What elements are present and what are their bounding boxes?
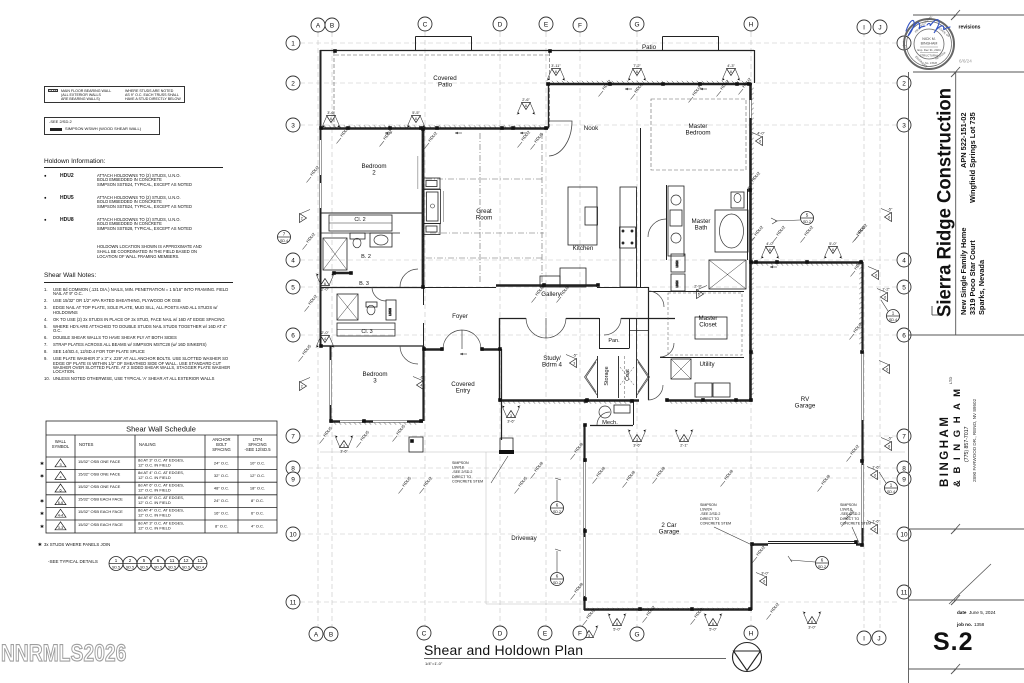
svg-text:(775) 857-7017: (775) 857-7017 (964, 426, 970, 462)
schedule row 6-6 (55, 497, 66, 505)
shear wall notes heading (44, 272, 96, 280)
study west wall (499, 318, 501, 400)
B3 door (372, 287, 386, 301)
watermark NNRMLS2026 (1, 641, 127, 669)
grid bubble bottom D (493, 626, 507, 640)
svg-text:Wingfield Springs Lot 735: Wingfield Springs Lot 735 (968, 112, 977, 203)
flag rv corner (872, 271, 879, 280)
mech door (597, 412, 610, 425)
patio right edge (754, 50, 756, 83)
svg-text:date: date (957, 610, 967, 615)
schedule row 3-3 (55, 522, 66, 530)
flag rv1 (766, 247, 775, 254)
grid bubble bottom G (630, 627, 644, 641)
flag 3-11 (552, 69, 561, 76)
svg-text:job no.: job no. (956, 622, 972, 627)
patio dashed post line left (333, 52, 335, 127)
coat bifold chevrons (637, 359, 650, 395)
flag rv east6 (871, 525, 878, 534)
typ detail 5/SD.5 (137, 557, 151, 571)
kitchen east wall inner (636, 190, 638, 287)
flag 5-5 (412, 116, 421, 123)
flag cl3 (321, 336, 330, 343)
grid bubble left 8 (286, 461, 300, 475)
grid bubble top B (325, 18, 339, 32)
plan title (424, 642, 726, 666)
flag left wall 2 (300, 382, 307, 391)
svg-text:& B I N G H A M: & B I N G H A M (952, 387, 963, 487)
detail 6/SD.2 a (551, 502, 564, 515)
coat dashed center (624, 356, 626, 398)
gallery north shear wall (496, 284, 597, 286)
svg-text:LTD: LTD (948, 377, 953, 384)
east house wall (master/utility) (749, 84, 752, 400)
Cl3 closet (337, 323, 395, 336)
kitchen island (568, 187, 597, 245)
holdown hdu5 (44, 196, 47, 201)
bedroom3/entry west wall (422, 346, 424, 421)
holdown hdu8 (44, 218, 47, 223)
professional stamp (904, 14, 954, 69)
kitchen lower cabinet (560, 268, 586, 287)
coat shelf X (620, 367, 634, 385)
signature (906, 20, 950, 36)
rv garage top shear wall (752, 261, 863, 264)
grid bubble right 4 (897, 253, 911, 267)
doors (372, 121, 674, 425)
coat east wall (648, 287, 650, 400)
svg-text:1358: 1358 (974, 622, 985, 627)
shear wall schedule table (0, 0, 300, 683)
3x studs note (38, 542, 110, 547)
svg-text:3319 Poco Star Court: 3319 Poco Star Court (968, 240, 977, 315)
covered entry east wall (501, 349, 503, 440)
legend box: simpson wswh (44, 117, 160, 135)
detail 6/SD.2 c (816, 557, 829, 570)
utility bottom shear wall (666, 399, 752, 402)
grid bubble left 9 (286, 472, 300, 486)
flag rv east4 (885, 442, 892, 451)
typ detail 6/SD.5 (151, 557, 165, 571)
grid bubble left 11 (286, 595, 300, 609)
svg-text:No. 13528: No. 13528 (925, 61, 938, 65)
detail 1/SD.4 right2 (885, 482, 898, 495)
study top wall (499, 318, 526, 320)
master closet top wall (648, 291, 744, 293)
storage/coat divider (618, 356, 620, 398)
B3 shower (337, 294, 358, 320)
holdown note (97, 245, 202, 259)
grid bubble right 6 (897, 328, 911, 342)
rv garage east wall (861, 262, 863, 545)
flag rv2 (829, 247, 838, 254)
great room media wall (424, 178, 441, 189)
covered entry columns (409, 437, 514, 454)
fixtures (323, 156, 748, 418)
interior wall B2 floor (320, 232, 400, 234)
grid bubble top D (493, 17, 507, 31)
flag 3-6 top (327, 116, 336, 123)
linen closets (671, 254, 685, 272)
grid bubble bottom F (573, 626, 587, 640)
garage entry door (648, 385, 663, 400)
mech room walls (590, 425, 633, 427)
Cl2 closet doors (329, 215, 392, 231)
2car garage door (768, 541, 856, 543)
svg-text:2890 FARWOOD DR., RENO, NV 895: 2890 FARWOOD DR., RENO, NV 89502 (972, 398, 977, 482)
foyer north opening walls (423, 287, 470, 289)
B3 linen (386, 300, 396, 320)
master toilet (731, 192, 744, 208)
patio bump right (662, 37, 664, 51)
flag bed3 bottom (340, 441, 349, 448)
svg-text:BINGHAM: BINGHAM (939, 415, 951, 487)
grid bubble bottom B (324, 627, 338, 641)
grid bubble bottom C (417, 626, 431, 640)
window segments (320, 100, 864, 596)
grid bubbles (286, 17, 911, 645)
flag nook corner (522, 103, 531, 110)
detail 1/SD.4 right (887, 310, 900, 323)
interior wall Cl2 top (320, 212, 423, 214)
grid bubble bottom E (538, 626, 552, 640)
mech equip (599, 406, 611, 418)
grid bubble right 11 (897, 585, 911, 599)
study east door (604, 318, 621, 335)
master bath door (648, 219, 666, 237)
svg-text:6/6/24: 6/6/24 (959, 59, 972, 64)
svg-text:June 5, 2024: June 5, 2024 (969, 610, 996, 615)
grid bubble right 5 (897, 280, 911, 294)
interior wall B2/B3 (320, 287, 423, 289)
detail circles (278, 212, 900, 586)
flag garage door r (760, 577, 767, 586)
grid bubble left 3 (286, 118, 300, 132)
master bath west wall (666, 185, 668, 260)
grid lines (300, 32, 898, 628)
grid bubble left 6 (286, 328, 300, 342)
grid bubble top A (311, 18, 325, 32)
garage west wall (583, 425, 585, 610)
storage bifold chevrons (585, 359, 598, 395)
svg-text:revisions: revisions (959, 25, 981, 31)
flag rv east1 (885, 213, 892, 222)
flag b3 (321, 279, 330, 286)
storage/mech bottom shear wall (585, 399, 639, 402)
flag 4-3 (727, 69, 736, 76)
grid bubble right 7 (897, 429, 911, 443)
garage south wall (584, 608, 752, 611)
flag entry right (570, 359, 577, 368)
master closet shelves (695, 317, 727, 339)
grid bubble right 8 (897, 461, 911, 475)
schedule rows (0, 0, 300, 683)
master vanity (668, 186, 684, 256)
nook west jamb (548, 84, 550, 129)
storage inner wall (597, 356, 599, 398)
svg-text:Sierra Ridge Construction: Sierra Ridge Construction (934, 88, 956, 317)
svg-text:APN 522-151-02: APN 522-151-02 (959, 113, 968, 168)
hall wall below bedroom2 (423, 287, 425, 305)
annotation flags (300, 64, 894, 638)
flag rv east5 (871, 471, 878, 480)
master shower (709, 260, 746, 289)
grid bubble bottom H (744, 626, 758, 640)
detail 5/SD.2 (801, 212, 814, 225)
grid bubble left 7 (286, 429, 300, 443)
see typical details (48, 559, 98, 564)
grid bubble bottom A (309, 627, 323, 641)
grid bubble top F (573, 18, 587, 32)
typ detail 2/SD.5 (123, 557, 137, 571)
schedule row 4 (55, 471, 66, 479)
svg-text:Exp. Dec 31, 2024: Exp. Dec 31, 2024 (917, 48, 940, 52)
bedroom2 east shear wall (422, 128, 425, 287)
truss direction arrows (385, 88, 777, 355)
bedroom3 door (400, 346, 418, 364)
grid bubble right 10 (897, 527, 911, 541)
stove (620, 227, 636, 248)
typ detail 11/SD.5 (165, 557, 179, 571)
flag left wall 1 (300, 214, 307, 223)
svg-text:BINGHAM: BINGHAM (921, 42, 938, 46)
shear wall notes list (44, 288, 235, 384)
utility sink (671, 359, 691, 379)
master closet/utility wall (660, 357, 744, 359)
svg-text:Sparks, Nevada: Sparks, Nevada (977, 259, 986, 315)
B2 toilet (350, 233, 365, 239)
master closet door (648, 291, 664, 307)
svg-text:NEVADA: NEVADA (934, 51, 946, 61)
B3 toilet (367, 305, 375, 315)
walls (320, 37, 863, 611)
svg-text:NICK M.: NICK M. (922, 37, 936, 41)
detail 6/SD.2 b (551, 573, 564, 586)
grid bubble left 10 (286, 527, 300, 541)
coat east wall (636, 318, 638, 398)
typical detail circles (109, 557, 207, 571)
B3 short shear wall (334, 272, 352, 274)
grid bubble top C (418, 17, 432, 31)
utility door (660, 343, 674, 357)
flag entry 7-6 (417, 381, 424, 390)
rv/2car garage divider (856, 543, 863, 545)
flag storage (633, 435, 642, 442)
svg-text:S.2: S.2 (933, 628, 974, 656)
grid bubble bottom I (857, 631, 871, 645)
shear wall nook/master top (548, 83, 752, 86)
master bath toilet wall (747, 189, 749, 260)
master tub (715, 210, 748, 252)
study bottom shear wall (499, 399, 589, 402)
shear wall line 3 (patio/bedroom2) (320, 127, 548, 130)
flag utility (680, 435, 689, 442)
garage front segment (751, 543, 768, 545)
pantry walls (599, 318, 601, 349)
flag gar s1 (613, 619, 622, 626)
schedule row 4-4 (55, 509, 66, 517)
holdown information heading (44, 158, 105, 166)
grid bubble top E (539, 17, 553, 31)
kitchen counter (620, 187, 637, 287)
grid bubble left 2 (286, 76, 300, 90)
gallery-study double doors (526, 318, 566, 338)
grid bubble left 1 (286, 36, 300, 50)
grid bubble right 9 (897, 472, 911, 486)
schedule row 6 (55, 484, 66, 492)
holdown hdu2 (44, 174, 47, 179)
flag rv east3 (883, 365, 890, 374)
flag rv east2 (881, 293, 888, 302)
grid bubble top H (744, 17, 758, 31)
kitchen east wall (640, 128, 642, 287)
B2 sink (370, 233, 392, 247)
grid bubble bottom J (872, 631, 886, 645)
patio bump left (415, 37, 417, 51)
washer dryer (695, 383, 712, 397)
kitchen/gallery jog (470, 287, 496, 289)
flag gar sw (585, 631, 594, 638)
interior wall Cl3 bottom (330, 345, 423, 347)
schedule rows (40, 457, 265, 530)
nook patio door (549, 121, 572, 156)
bedroom3 bottom shear wall (330, 420, 423, 423)
detail 7/SD.4 (278, 231, 291, 244)
grid bubble top J (873, 20, 887, 34)
typ detail 12/SD.5 (179, 557, 193, 571)
grid bubble right 3 (897, 118, 911, 132)
flag gar s2 (709, 619, 718, 626)
flag gar se (808, 617, 817, 624)
foyer front wall (423, 348, 443, 350)
patio dashed post line right (549, 52, 551, 127)
bedroom2 door (400, 269, 418, 287)
flag master wall (756, 137, 763, 146)
corner bracket (932, 306, 940, 315)
grid bubble left 5 (286, 280, 300, 294)
west exterior wall upper (320, 50, 322, 346)
simpson notes (452, 456, 871, 545)
typ detail 13/SD.4 (193, 557, 207, 571)
grid bubble right 2 (897, 76, 911, 90)
sheet diagonal mark (949, 564, 991, 604)
hdu labels (299, 76, 869, 625)
flag 7-2 (633, 69, 642, 76)
grid bubble left 4 (286, 253, 300, 267)
dashed ceiling lines (426, 99, 746, 355)
holdown squares (319, 49, 864, 611)
grid bubble top G (630, 17, 644, 31)
shear wall hatching (324, 81, 862, 610)
svg-text:New Single Family Home: New Single Family Home (959, 228, 968, 315)
flag study bottom (507, 411, 516, 418)
slab edge lines (320, 452, 905, 604)
legend box: bearing wall (44, 86, 185, 103)
foyer double doors (443, 330, 481, 349)
grid bubble right 1 (897, 36, 911, 50)
schedule row 3 (55, 459, 66, 467)
north arrow (733, 643, 762, 672)
grid bubble top I (857, 20, 871, 34)
room labels (354, 44, 816, 542)
gallery north wall east part (597, 287, 648, 289)
B2 shower (323, 238, 347, 270)
wire: covered patio top line (320, 50, 754, 52)
patio dashed slab line (335, 54, 550, 56)
flag patio post (697, 290, 704, 299)
break marks (951, 10, 960, 674)
garage east wall (750, 544, 752, 610)
west exterior wall lower (330, 346, 332, 421)
typ detail 1/SD.5 (109, 557, 123, 571)
